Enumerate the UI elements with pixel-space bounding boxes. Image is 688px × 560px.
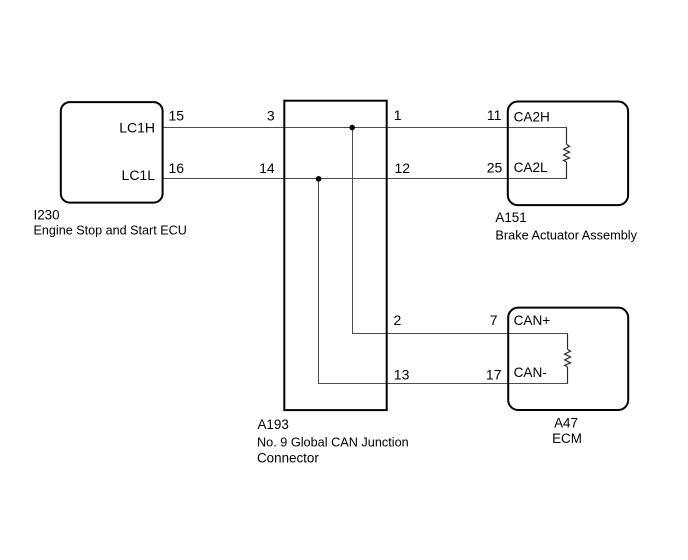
svg-text:CA2H: CA2H bbox=[514, 110, 550, 125]
svg-text:14: 14 bbox=[259, 160, 275, 176]
svg-text:CAN+: CAN+ bbox=[514, 313, 551, 328]
node junction dot on LC1H row bbox=[349, 125, 355, 131]
svg-text:Brake Actuator Assembly: Brake Actuator Assembly bbox=[495, 227, 637, 242]
svg-text:A47: A47 bbox=[554, 415, 578, 430]
svg-text:A193: A193 bbox=[258, 417, 289, 432]
svg-text:1: 1 bbox=[394, 107, 402, 123]
svg-text:12: 12 bbox=[395, 160, 411, 176]
ECU I230 box bbox=[61, 102, 163, 203]
svg-text:17: 17 bbox=[486, 366, 502, 382]
resistor inside A47 (terminating resistor between CAN+ and CAN-) bbox=[565, 334, 571, 384]
wire CAN+ row (A193 pin 2 to A47 pin 7) bbox=[352, 333, 568, 335]
wire LC1H row (I230 pin 15 to A193 pin 3 / pin 1 to A151 pin 11) bbox=[163, 127, 567, 129]
wire CAN- row (A193 pin 13 to A47 pin 17) bbox=[318, 383, 568, 385]
wire vertical inside A193 from node on LC1H row down to CAN+ row bbox=[352, 127, 354, 334]
svg-text:13: 13 bbox=[394, 366, 410, 382]
svg-text:ECM: ECM bbox=[552, 431, 582, 446]
svg-text:I230: I230 bbox=[34, 207, 60, 222]
wire vertical inside A193 from node on LC1L row down to CAN- row bbox=[318, 178, 320, 384]
svg-text:CA2L: CA2L bbox=[514, 160, 548, 175]
junction connector A193 box bbox=[284, 101, 386, 410]
svg-text:16: 16 bbox=[169, 160, 185, 176]
svg-text:No. 9 Global CAN Junction: No. 9 Global CAN Junction bbox=[257, 434, 409, 449]
brake actuator A151 box bbox=[508, 102, 628, 206]
svg-text:7: 7 bbox=[490, 312, 498, 328]
svg-text:2: 2 bbox=[394, 312, 402, 328]
svg-text:25: 25 bbox=[487, 159, 503, 175]
svg-text:CAN-: CAN- bbox=[514, 365, 547, 380]
svg-text:LC1L: LC1L bbox=[122, 167, 156, 183]
wire LC1L row (I230 pin 16 to A193 pin 14 / pin 12 to A151 pin 25) bbox=[163, 178, 567, 180]
svg-text:11: 11 bbox=[487, 107, 502, 123]
svg-text:Connector: Connector bbox=[257, 450, 319, 465]
svg-text:3: 3 bbox=[267, 107, 275, 123]
svg-text:Engine Stop and Start ECU: Engine Stop and Start ECU bbox=[34, 223, 187, 238]
ECM A47 box bbox=[508, 308, 628, 410]
svg-text:15: 15 bbox=[169, 107, 185, 123]
svg-text:A151: A151 bbox=[495, 210, 526, 225]
svg-text:LC1H: LC1H bbox=[119, 119, 155, 135]
node junction dot on LC1L row bbox=[316, 176, 322, 182]
resistor inside A151 (terminating resistor between CA2H and CA2L) bbox=[564, 128, 570, 180]
